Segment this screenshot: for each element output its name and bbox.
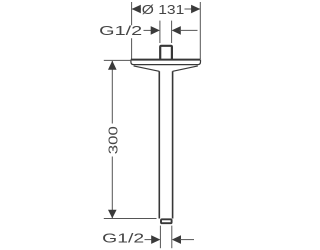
dimension Ø131 line [132,8,201,10]
ceiling plate top edge [131,59,201,61]
arrow G1/2 bottom right [172,235,181,244]
pipe wall right [172,71,174,218]
extension line pipe end left [159,226,161,249]
leader line G1/2 bottom right [180,239,194,241]
svg-text:Ø 131: Ø 131 [142,2,185,17]
ceiling plate flange outline [131,60,201,65]
pipe end cap [161,219,172,223]
dimension 300 arrow up [108,61,117,70]
dimension 300 arrow down [108,210,117,219]
leader line G1/2 bottom left [145,239,154,241]
plate taper right [173,66,198,71]
leader line G1/2 top right [180,29,198,31]
dimension Ø131 extension line right [199,2,201,59]
svg-text:G1/2: G1/2 [99,23,142,38]
dimension 300 extension line bottom [104,218,157,220]
dimension Ø131 arrow right [191,5,200,14]
plate taper left [134,66,160,71]
dimension Ø131 extension line left [131,2,133,59]
dimension 300 extension line top [104,59,131,61]
dimension Ø131 arrow left [132,5,141,14]
extension line stub right [171,21,173,43]
leader line G1/2 top left [144,29,153,31]
svg-text:G1/2: G1/2 [102,231,144,246]
thread stub [160,46,172,60]
arrow G1/2 top right [172,26,181,35]
pipe wall left [158,71,160,218]
extension line stub left [159,21,161,43]
extension line pipe end right [171,226,173,249]
dimension 300 line [111,61,113,218]
arrow G1/2 bottom left [151,235,160,244]
arrow G1/2 top left [151,26,160,35]
svg-text:300: 300 [105,126,120,154]
